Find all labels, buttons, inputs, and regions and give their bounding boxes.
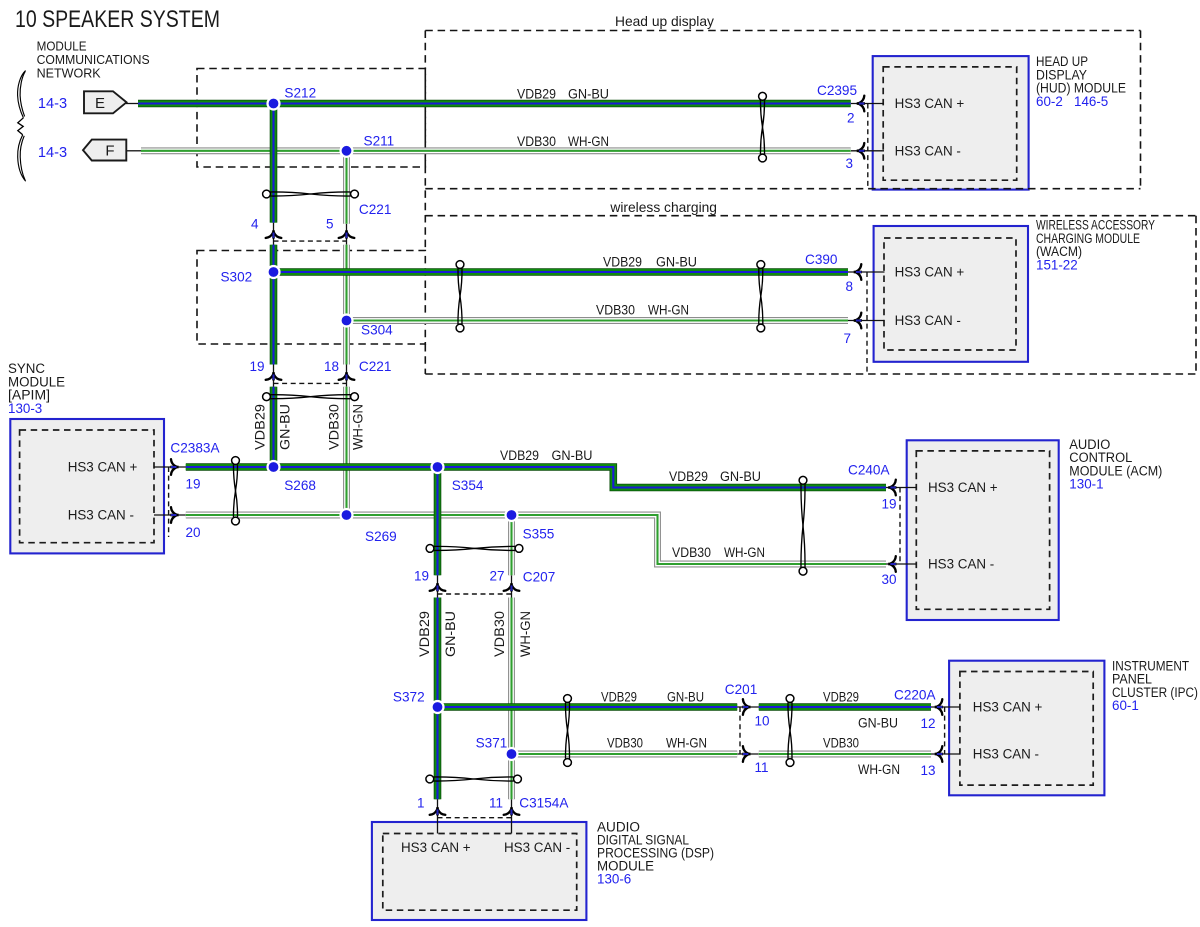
svg-text:130-3: 130-3 [8,401,42,416]
svg-text:VDB29: VDB29 [417,611,432,657]
svg-text:HS3 CAN +: HS3 CAN + [895,96,965,111]
svg-text:151-22: 151-22 [1036,258,1078,273]
svg-text:VDB30: VDB30 [672,545,711,560]
connector C220A arrow pin 13 [935,746,943,762]
svg-text:GN-BU: GN-BU [278,404,293,450]
svg-text:11: 11 [489,796,503,811]
svg-text:18: 18 [324,359,339,374]
connector flag E [84,91,127,113]
svg-text:C221: C221 [359,202,392,217]
svg-text:C201: C201 [725,682,758,697]
svg-text:COMMUNICATIONS: COMMUNICATIONS [37,53,150,67]
connector C240A arrow pin 19 [888,480,896,496]
splice S371 junction dot [506,748,518,760]
connector C221 arrow pin 18 [339,372,355,380]
svg-text:Head up display: Head up display [615,14,714,29]
svg-text:WH-GN: WH-GN [351,404,366,450]
connector C2383A arrow pin 20 [170,507,178,523]
svg-text:S372: S372 [393,690,425,705]
svg-text:VDB29: VDB29 [601,689,637,704]
splice S302 junction dot [268,266,280,278]
wire VDB29 GN-BU vertical S372 to C3154A [434,707,442,799]
svg-text:S268: S268 [284,478,316,493]
svg-text:19: 19 [186,477,201,492]
svg-text:VDB30: VDB30 [607,736,643,751]
svg-text:S304: S304 [361,322,393,337]
svg-text:19: 19 [414,569,429,584]
svg-text:GN-BU: GN-BU [552,448,593,463]
connector flag F [83,140,126,161]
svg-text:3: 3 [845,156,853,171]
svg-text:HS3 CAN -: HS3 CAN - [68,508,134,523]
svg-text:F: F [105,143,114,160]
twisted pair symbol before ACM [799,476,807,575]
Head up display harness bottom edge [425,188,1140,190]
pin 3 line at HUD [851,150,884,152]
wire VDB30 WH-GN vertical S355 to C207 [508,515,515,575]
wire VDB30 WH-GN vertical S211 to C221 [343,151,350,224]
svg-text:19: 19 [881,497,896,512]
wire VDB29 GN-BU vertical C207 to S372 [434,598,442,708]
svg-text:7: 7 [843,331,851,346]
connector C3154A arrow pin 11 [504,807,520,815]
wire VDB30 WH-GN from C201 to IPC pin 13 [759,751,931,758]
connector C390 arrow pin 8 [854,264,862,280]
wire VDB29 GN-BU from S372 to C201 [438,703,738,711]
pin 5 line at C221 [346,224,348,245]
svg-text:WH-GN: WH-GN [568,134,609,149]
splice S268 junction dot [268,461,280,473]
svg-text:VDB29: VDB29 [500,448,539,463]
connector C201 arrow pin 10 [742,699,750,715]
twisted pair symbol above C3154A [426,775,521,783]
pin 4 line at C221 [273,223,275,245]
connector C3154A dashed line [438,817,512,819]
svg-text:S269: S269 [365,529,397,544]
wire VDB29 GN-BU vertical C221 to S268 [270,387,278,467]
svg-text:GN-BU: GN-BU [667,689,704,704]
connector C207 arrow pin 27 [504,583,520,591]
pin line E flag to wire [126,103,138,105]
svg-text:GN-BU: GN-BU [656,254,697,269]
svg-text:4: 4 [251,217,259,232]
pin 2 line at HUD [851,103,884,105]
svg-text:60-1: 60-1 [1112,698,1139,713]
Head up display harness right edge [1140,31,1142,189]
pin 27 line at C207 [511,575,513,597]
svg-text:VDB30: VDB30 [492,611,507,657]
svg-text:VDB29: VDB29 [823,689,859,704]
twisted pair symbol below E/F rows [263,190,359,198]
harness box around E/F takeouts [197,69,425,168]
pin line F flag to wire [126,150,141,152]
wire VDB30 WH-GN vertical S371 to C3154A [508,754,515,799]
pin 1 line at C3154A into DSP [437,799,439,833]
wire VDB29 GN-BU from SYNC pin 19 through S268 S354 jog to ACM pin 19 [186,467,886,488]
connector C390 dashed line [866,272,868,374]
svg-text:E: E [95,95,105,112]
connector C220A dashed line [944,707,946,754]
svg-text:HS3 CAN -: HS3 CAN - [895,313,961,328]
wireless charging harness right edge [1195,216,1197,374]
svg-text:HS3 CAN +: HS3 CAN + [895,265,965,280]
svg-text:14-3: 14-3 [38,96,67,112]
twisted pair symbol after C201 splices [564,695,572,767]
splice S372 junction dot [432,701,444,713]
wireless charging harness bottom edge [425,373,1196,375]
svg-text:HS3 CAN -: HS3 CAN - [928,557,994,572]
svg-text:11: 11 [755,760,769,775]
twisted pair symbol before WACM [757,261,765,332]
connector C240A dashed line [899,488,901,565]
twisted pair symbol below lower C221 [263,393,359,401]
svg-text:13: 13 [920,763,935,778]
svg-text:C2395: C2395 [817,83,857,98]
svg-text:S354: S354 [452,478,484,493]
svg-text:C207: C207 [523,570,556,585]
svg-text:2: 2 [847,111,855,126]
splice S269 junction dot [341,509,353,521]
wire VDB29 GN-BU from S302 to WACM pin 8 [274,268,849,276]
wire VDB30 WH-GN from S304 to WACM pin 7 [347,317,849,324]
svg-text:WH-GN: WH-GN [724,545,765,560]
pin 12 line at IPC [931,706,960,708]
connector C240A arrow pin 30 [888,556,896,572]
pin 10 line at C201 [737,706,759,708]
connector C2395 arrow pin 3 [857,143,865,159]
svg-text:VDB29: VDB29 [517,87,556,102]
harness boundary vertical at x425 [424,31,426,251]
svg-text:130-1: 130-1 [1069,477,1103,492]
connector C2395 arrow pin 2 [857,96,865,112]
twisted pair symbol below S354/S355 [426,545,523,553]
harness boundary vertical below S302 box [424,344,426,374]
svg-text:14-3: 14-3 [38,145,67,161]
splice S354 junction dot [432,461,444,473]
svg-text:MODULE: MODULE [37,40,87,54]
svg-text:C220A: C220A [894,687,936,702]
svg-text:WH-GN: WH-GN [518,611,533,657]
splice S304 junction dot [341,315,353,327]
twisted pair symbol before IPC [786,695,794,767]
svg-text:19: 19 [249,359,264,374]
pin 19 line at C221 [273,365,275,387]
svg-text:S211: S211 [364,134,395,149]
svg-text:HS3 CAN -: HS3 CAN - [973,747,1039,762]
svg-text:C221: C221 [359,359,392,374]
connector C221 arrow pin 19 [266,372,282,380]
pin 11 line at C201 [737,753,759,755]
svg-text:HS3 CAN -: HS3 CAN - [895,144,961,159]
svg-text:HS3 CAN -: HS3 CAN - [504,840,570,855]
svg-text:VDB29: VDB29 [669,469,708,484]
twisted pair symbol after S302/S304 [456,261,464,332]
connector C390 arrow pin 7 [854,313,862,329]
svg-text:30: 30 [881,572,896,587]
svg-text:WH-GN: WH-GN [858,762,900,777]
svg-text:VDB29: VDB29 [603,254,642,269]
connector C220A arrow pin 12 [935,699,943,715]
svg-text:WH-GN: WH-GN [648,303,689,318]
wire VDB30 WH-GN from SYNC pin 20 through S269 S355 jog to ACM pin 30 [186,515,886,564]
svg-text:10 SPEAKER SYSTEM: 10 SPEAKER SYSTEM [15,6,220,33]
svg-text:S212: S212 [284,86,316,101]
svg-text:HS3 CAN +: HS3 CAN + [68,460,138,475]
wire VDB30 WH-GN from F flag to HUD pin 3 [141,147,851,154]
twisted pair symbol before HUD [759,92,767,162]
wire VDB30 WH-GN vertical C207 to S371 [508,598,515,755]
module HEAD UP DISPLAY (HUD) MODULE box [873,56,1029,190]
pin 8 line at WACM [848,271,885,273]
svg-text:VDB30: VDB30 [517,134,556,149]
wire VDB29 GN-BU vertical S354 to C207 [434,467,442,575]
pin 11 line at C3154A into DSP [511,799,513,833]
svg-text:HS3 CAN +: HS3 CAN + [928,480,998,495]
svg-text:VDB30: VDB30 [596,303,635,318]
wire VDB29 GN-BU vertical S212 to C221 [270,104,278,223]
svg-text:27: 27 [489,569,504,584]
splice S211 junction dot [341,145,353,157]
connector C3154A arrow pin 1 [430,807,446,815]
wire VDB30 WH-GN from S371 to C201 [512,751,738,758]
module WIRELESS ACCESSORY CHARGING MODULE (WACM) box [874,226,1028,362]
svg-text:VDB30: VDB30 [823,736,859,751]
svg-text:HS3 CAN +: HS3 CAN + [973,700,1043,715]
connector C2395 dashed line [867,104,869,189]
module AUDIO DSP MODULE box [372,822,587,920]
svg-text:10: 10 [755,714,770,729]
twisted pair symbol after C2383A [232,457,240,525]
pin 7 line at WACM [848,320,885,322]
svg-text:20: 20 [186,525,201,540]
pin 19 line at SYNC [154,466,186,468]
svg-text:C2383A: C2383A [170,440,220,455]
connector C221 arrow pin 4 [266,230,282,238]
svg-text:S355: S355 [523,527,555,542]
wireless charging harness top edge [425,215,1196,217]
connector C207 arrow pin 19 [430,583,446,591]
svg-text:WH-GN: WH-GN [666,736,707,751]
harness box around S302/S304 [197,251,425,345]
svg-text:C3154A: C3154A [519,795,569,810]
svg-text:wireless charging: wireless charging [609,200,717,215]
wire VDB29 GN-BU from C201 to IPC pin 12 [759,703,931,711]
pin 19 line at C207 [437,575,439,597]
svg-text:GN-BU: GN-BU [720,469,761,484]
wire VDB29 GN-BU from E flag to HUD pin 2 [138,100,851,108]
continuation brace for module communications network [18,71,26,182]
module SYNC MODULE [APIM] box [10,419,164,553]
svg-text:S371: S371 [476,736,508,751]
svg-text:130-6: 130-6 [597,872,631,887]
module AUDIO CONTROL MODULE (ACM) box [907,440,1059,620]
svg-text:VDB29: VDB29 [253,404,268,450]
svg-text:1: 1 [417,796,425,811]
svg-text:GN-BU: GN-BU [858,716,898,731]
connector C201 dashed line [739,707,741,754]
wire VDB30 WH-GN vertical C221 to S269 [343,387,350,515]
svg-text:VDB30: VDB30 [327,404,342,450]
svg-text:12: 12 [920,716,935,731]
connector C221 arrow pin 5 [339,230,355,238]
svg-text:HS3 CAN +: HS3 CAN + [401,840,471,855]
svg-text:C240A: C240A [848,463,890,478]
svg-text:C390: C390 [805,252,838,267]
splice S355 junction dot [506,509,518,521]
svg-text:5: 5 [326,217,334,232]
pin 19 line at ACM [886,487,917,489]
pin 20 line at SYNC [154,514,186,516]
pin 13 line at IPC [931,753,960,755]
svg-text:S302: S302 [220,269,252,284]
wire VDB30 WH-GN vertical C221 to S304 area [343,245,350,365]
svg-text:NETWORK: NETWORK [37,67,102,81]
pin 30 line at ACM [886,563,917,565]
module INSTRUMENT PANEL CLUSTER (IPC) box [949,661,1104,796]
connector C221 dashed line lower [274,382,347,384]
svg-text:GN-BU: GN-BU [443,611,458,657]
connector C2383A arrow pin 19 [170,459,178,475]
connector C2383A dashed line [168,467,170,537]
connector C221 dashed line upper [274,240,347,242]
svg-text:8: 8 [845,279,853,294]
connector C207 dashed line [438,593,512,595]
splice S212 junction dot [268,98,280,110]
wire VDB29 GN-BU vertical C221 through S302 [270,245,278,365]
Head up display harness top edge [425,30,1140,32]
pin 18 line at C221 [346,365,348,387]
svg-text:GN-BU: GN-BU [568,87,609,102]
connector C201 arrow pin 11 [742,746,750,762]
